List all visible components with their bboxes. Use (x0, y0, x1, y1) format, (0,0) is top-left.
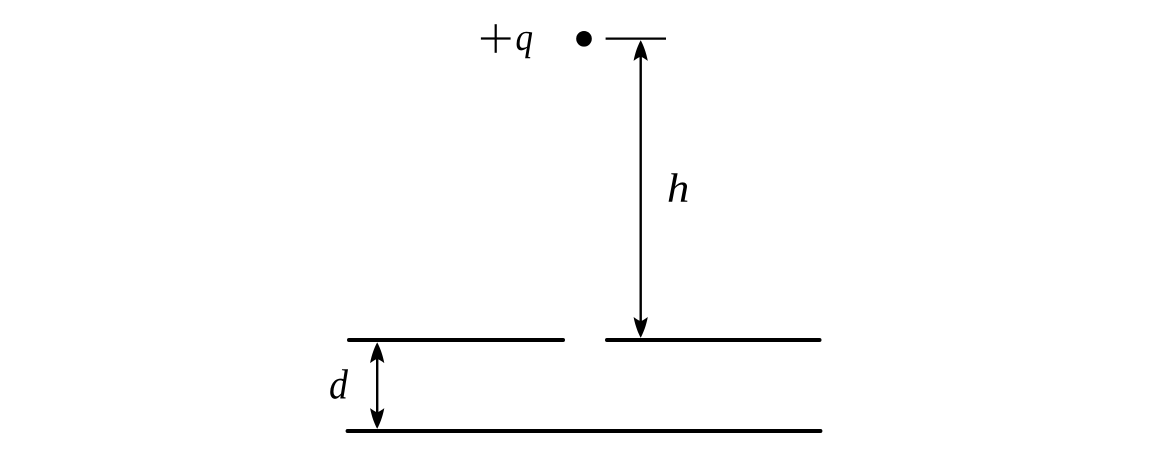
point charge dot (576, 31, 592, 47)
reference tick line at charge height (606, 37, 666, 39)
dimension arrow d (double-headed vertical) (370, 342, 384, 428)
label d (330, 369, 348, 399)
right top plate (607, 338, 820, 342)
label h (669, 173, 688, 202)
left top plate (349, 338, 563, 342)
bottom plate (348, 429, 821, 433)
charge label +q (481, 24, 532, 58)
dimension arrow h (double-headed vertical) (634, 40, 648, 338)
